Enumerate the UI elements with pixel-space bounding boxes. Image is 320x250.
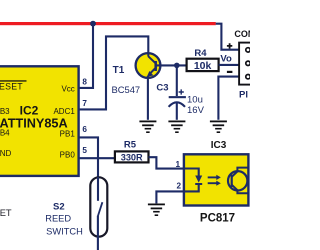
svg-text:PB3: PB3: [0, 107, 10, 116]
svg-text:16V: 16V: [187, 105, 205, 116]
CON2 pin contact +: [246, 48, 250, 52]
svg-text:R4: R4: [194, 48, 207, 59]
capacitor C3 plus sign: [179, 89, 184, 94]
IC2 ATTINY85A body: [0, 66, 79, 176]
S2 lever: [98, 202, 103, 216]
wire R5 to IC3 pin 1: [149, 157, 185, 168]
svg-text:Vo: Vo: [220, 53, 232, 64]
S2 top contact: [97, 177, 99, 201]
IC3 phototransistor base bar: [231, 175, 233, 187]
svg-text:S2: S2: [53, 202, 65, 213]
svg-text:C3: C3: [156, 83, 168, 94]
IC3 light arrow 2: [208, 182, 217, 184]
T1 emitter inner lead: [149, 68, 156, 75]
capacitor C3 top plate: [169, 96, 186, 98]
svg-text:Vcc: Vcc: [61, 85, 74, 94]
svg-text:PB4: PB4: [0, 129, 10, 138]
wire Vcc pin 8 to rail: [78, 25, 93, 88]
resistor R4 body: [187, 59, 219, 71]
svg-text:BC547: BC547: [111, 84, 140, 95]
IC3 phototransistor collector lead: [232, 168, 250, 177]
wire T1 emitter to ground: [147, 76, 149, 120]
minus sign: [227, 71, 233, 73]
svg-text:5: 5: [82, 146, 87, 155]
node junction at C3: [174, 63, 180, 69]
svg-text:ATTINY85A: ATTINY85A: [0, 117, 68, 131]
node junction on rail: [90, 21, 96, 27]
svg-text:T1: T1: [113, 65, 125, 76]
svg-text:ET: ET: [0, 208, 12, 218]
capacitor C3 bottom lead: [176, 103, 178, 120]
T1 emitter arrowhead: [147, 71, 154, 77]
svg-text:RESET: RESET: [0, 82, 23, 92]
svg-text:IC2: IC2: [20, 103, 39, 117]
resistor R5 body: [115, 151, 149, 162]
wire from rail end to CON2 + pin: [216, 24, 243, 50]
svg-text:ADC1: ADC1: [53, 107, 75, 116]
svg-text:PB0: PB0: [60, 150, 76, 159]
IC3 phototransistor envelope: [228, 171, 247, 190]
IC3 LED cathode lead: [184, 185, 199, 192]
svg-text:SWITCH: SWITCH: [46, 227, 83, 237]
svg-text:REED: REED: [45, 214, 71, 224]
wire CON2 minus pin to ground: [218, 77, 242, 120]
capacitor C3 bottom plate (curved): [169, 102, 185, 107]
ground below IC3 pin 2: [148, 204, 165, 217]
ground below minus wire: [210, 121, 227, 134]
T1 base bar: [154, 61, 157, 71]
IC2 RESET pin label (overline): [0, 80, 27, 81]
svg-text:PC817: PC817: [200, 213, 235, 225]
svg-text:R5: R5: [124, 140, 137, 151]
svg-text:IC3: IC3: [211, 140, 227, 151]
reed switch S2 capsule: [90, 177, 107, 236]
ground below C3: [168, 121, 185, 134]
svg-text:PB1: PB1: [60, 129, 76, 138]
connector CON2 body: [239, 43, 255, 85]
svg-text:1: 1: [176, 160, 181, 169]
wire IC3 pin 2 to ground: [156, 191, 184, 203]
svg-text:7: 7: [82, 99, 87, 108]
svg-text:330R: 330R: [121, 152, 143, 162]
svg-text:8: 8: [82, 77, 87, 86]
capacitor C3 top lead: [176, 65, 178, 96]
IC3 LED triangle: [195, 176, 202, 183]
optocoupler IC3 body: [184, 154, 249, 205]
CON2 plus sign: [227, 43, 232, 48]
wire R4 to CON2 Vo pin: [219, 64, 243, 66]
IC3 light arrow 1: [208, 176, 217, 178]
wire pin 7 ADC1 to T1 collector: [78, 36, 148, 109]
IC3 phototransistor emitter lead: [232, 185, 250, 194]
IC3 LED anode lead: [184, 169, 199, 176]
T1 collector inner lead: [148, 53, 155, 63]
ground below T1: [139, 121, 156, 134]
IC3 LED cathode bar: [195, 183, 202, 185]
wire pin 6 PB1 to reed switch: [78, 137, 98, 177]
svg-text:2: 2: [177, 182, 182, 191]
wire pin 5 PB0 to R5: [78, 157, 115, 159]
transistor T1 body: [136, 53, 161, 78]
svg-text:10k: 10k: [194, 60, 212, 72]
svg-text:Pl: Pl: [239, 90, 248, 101]
CON2 pin contact Vo: [246, 61, 250, 65]
svg-text:CON2: CON2: [234, 29, 250, 39]
svg-text:6: 6: [82, 125, 87, 134]
S2 bottom contact wire to bottom edge: [97, 216, 99, 250]
svg-text:GND: GND: [0, 149, 12, 158]
CON2 pin contact -: [246, 75, 250, 79]
wire T1 base to R4: [156, 64, 187, 66]
power rail +V (red): [0, 22, 216, 25]
